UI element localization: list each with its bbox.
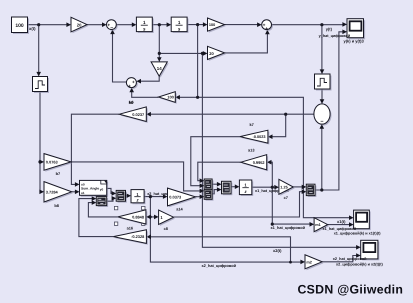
svg-text:0.0763: 0.0763 <box>46 160 59 165</box>
wire: y_hat output of M block to scope-y input2 <box>315 32 345 190</box>
wire: sum2 output y(t) to scope <box>272 24 345 26</box>
wire: x2 branch down to triangle14 and right to gain20b <box>159 25 205 60</box>
scope y(k) and y(t) <box>349 20 366 39</box>
svg-text:x1(t): x1(t) <box>337 219 346 224</box>
gain c7 <box>280 181 294 196</box>
svg-text:0.8848: 0.8848 <box>132 214 145 219</box>
svg-text:CSDN @Giiwedin: CSDN @Giiwedin <box>298 283 404 297</box>
gain m1 <box>316 219 330 233</box>
wire: ellipse output left to k8 <box>149 113 314 115</box>
wire: A2 to DZ2 <box>126 195 129 197</box>
svg-text:100: 100 <box>15 23 24 29</box>
gain 0.8848 (left-pointing, selected) <box>119 211 147 225</box>
wire: x2_hat branch down splits to 0.8848 and c8 then down to m2 <box>149 197 303 263</box>
wire: branch down to k7 <box>271 114 286 137</box>
small block C <box>223 183 233 196</box>
wire: triangle14 output to k6 sum <box>139 76 159 81</box>
small dark block M (y_hat mux) <box>308 186 317 197</box>
small dark block AUP <box>206 180 214 190</box>
wire: x1_hat down to m1 <box>272 187 311 224</box>
subsystem Sum_Angle <box>81 182 108 197</box>
svg-text:x2(t): x2(t) <box>273 248 282 253</box>
svg-text:m2: m2 <box>306 260 312 264</box>
svg-text:x1_hat_цифровой: x1_hat_цифровой <box>271 225 306 230</box>
constant block 100 <box>13 18 29 34</box>
wire: c7 output to M block input1 <box>293 186 304 188</box>
svg-text:s: s <box>178 27 181 32</box>
gain b7 <box>45 155 72 172</box>
wire and block labels <box>202 26 384 267</box>
wire: y_hat branch up to ellipse bottom (minus) <box>321 127 323 190</box>
gain 20 (input) <box>72 19 88 34</box>
svg-text:1: 1 <box>178 20 181 25</box>
svg-text:u1: u1 <box>81 191 85 195</box>
svg-text:-0.2328: -0.2328 <box>131 234 145 239</box>
wire: k7 output to block cluster <box>191 137 240 186</box>
discrete block DZ1 1/z <box>241 181 253 196</box>
wire: x1 branch down <box>197 25 199 98</box>
scope x2 <box>362 242 379 261</box>
wire: Sum_Angle y0 to A2 <box>107 188 114 193</box>
small dark block A2 <box>118 192 127 203</box>
svg-text:100: 100 <box>209 23 215 27</box>
svg-text:x1_hat_цифровой: x1_hat_цифровой <box>323 227 357 231</box>
svg-text:y(t): y(t) <box>326 26 333 31</box>
zero-order hold ZOH2 <box>316 76 332 91</box>
discrete block DZ2 1/z <box>132 191 145 204</box>
small dark block BUP <box>206 191 214 201</box>
wire: AUP out to C <box>212 183 219 185</box>
wire: constant to gain b5 <box>28 24 69 26</box>
wire: x2(t) long line down to scope2 <box>202 53 358 247</box>
wire: gain100L output to k6 bottom <box>132 90 159 97</box>
svg-text:Sum_Angle: Sum_Angle <box>81 186 99 190</box>
wire: 0.8848 output to A1 input2 <box>88 203 118 217</box>
svg-text:k7: k7 <box>250 122 254 127</box>
svg-text:0.0237: 0.0237 <box>132 112 144 117</box>
svg-text:a16: a16 <box>127 226 134 231</box>
wire: x1_hat up to a13 input <box>269 162 272 187</box>
ellipse sum (y - y_hat) <box>315 105 331 125</box>
svg-text:0.9952: 0.9952 <box>253 160 266 165</box>
svg-text:s: s <box>143 27 146 32</box>
wire: DZ2 out x2_hat to a14 <box>144 196 165 198</box>
scope x1 <box>355 212 371 231</box>
wire: gain20b up to sum2 bottom <box>225 32 268 53</box>
triangle gain 14 (down) <box>153 63 169 77</box>
svg-text:20: 20 <box>77 22 82 27</box>
k6 sum circle <box>128 79 138 89</box>
svg-text:m1: m1 <box>315 223 321 227</box>
wire: c8 output up to M block input2 <box>174 192 304 217</box>
svg-text:y0: y0 <box>100 187 104 191</box>
wire: x(t) branch down to ZOH1 <box>38 25 40 74</box>
svg-text:3.7284: 3.7284 <box>46 190 59 195</box>
wire: A1 out to A2 <box>107 198 114 201</box>
svg-text:c7: c7 <box>284 195 288 200</box>
sum1 circle <box>108 21 118 31</box>
wire: integrator2 to gain100b <box>188 24 205 26</box>
sum2 circle <box>263 21 273 31</box>
wire: x1 line left to gain100L and right-down to scope1 <box>178 97 351 217</box>
svg-text:-0.0023: -0.0023 <box>253 135 266 139</box>
gain 100 (left-pointing) <box>160 93 177 104</box>
svg-text:x2_hat_цифровой: x2_hat_цифровой <box>333 257 367 261</box>
gain 100 (upper right-pointing) <box>209 19 226 32</box>
svg-text:1.25: 1.25 <box>280 186 287 190</box>
svg-text:x1_цифровой(k) и x1(t)(t): x1_цифровой(k) и x1(t)(t) <box>334 231 382 235</box>
svg-text:−: − <box>110 25 113 31</box>
svg-text:100: 100 <box>167 95 174 100</box>
wire: gain100b to sum2 <box>225 24 259 26</box>
svg-text:x2_цифровой(k) и x2(t)(t): x2_цифровой(k) и x2(t)(t) <box>336 262 384 266</box>
integrator 2 <box>173 19 189 34</box>
svg-text:b7: b7 <box>56 171 61 176</box>
svg-text:a13: a13 <box>248 148 255 153</box>
svg-text:+: + <box>128 84 131 89</box>
wire: a14 output to BUP <box>196 196 202 198</box>
gain k8 <box>121 108 148 123</box>
gain c8 value 1 <box>160 211 175 226</box>
zero-order hold ZOH1 <box>34 78 49 93</box>
gain 20 (lower right-pointing) <box>209 48 226 61</box>
svg-text:20: 20 <box>209 51 214 56</box>
svg-text:+: + <box>265 27 268 32</box>
wire: gain20a to sum1 <box>87 24 104 26</box>
wire: integrator1 to integrator2 <box>152 24 169 26</box>
svg-text:+: + <box>132 80 135 85</box>
selection handles for gain 0.8848 <box>114 206 145 225</box>
svg-text:0.0373: 0.0373 <box>169 194 182 199</box>
gain -0.2328 (left-pointing) <box>115 231 148 245</box>
wire: m2 output to scope2 input2 <box>322 256 358 262</box>
svg-text:14: 14 <box>157 66 162 71</box>
wire: k6 output up to sum1 bottom <box>113 32 127 82</box>
gain k7 <box>241 132 269 145</box>
svg-text:y(k) и y(t)3: y(k) и y(t)3 <box>344 39 365 44</box>
svg-text:1: 1 <box>143 20 146 25</box>
svg-text:−: − <box>320 119 323 125</box>
gain a13 <box>242 156 268 171</box>
small dark block A1 (below Sum_Angle) <box>98 198 108 207</box>
arrowheads <box>36 22 360 264</box>
wire: BUP out to C <box>212 190 219 194</box>
wire: -0.2328 output to A1 input1 <box>79 199 113 237</box>
wire: b8 to Sum_Angle u1 <box>72 191 77 193</box>
svg-text:y_hat_цифровой: y_hat_цифровой <box>319 34 351 38</box>
wire: sum1 to integrator1 <box>116 24 134 26</box>
svg-text:x(t): x(t) <box>29 26 36 31</box>
wire: C out to DZ1 <box>231 186 237 188</box>
wire: b7 output to block cluster <box>71 162 202 191</box>
wire: m1 output to scope1 input2 <box>328 224 351 226</box>
svg-text:a14: a14 <box>176 206 183 211</box>
wire: ZOH2 to ellipse sum <box>321 89 323 102</box>
gain m2 <box>306 256 323 270</box>
wire: k8 output to Sum_Angle u0 <box>71 114 119 184</box>
gain b8 <box>45 183 73 203</box>
wire: branch up to -0.2328 input <box>149 237 291 262</box>
wire: a13 output to block cluster <box>198 162 241 181</box>
integrator 1 <box>138 19 154 34</box>
svg-text:x2_hat_цифровой: x2_hat_цифровой <box>202 263 237 268</box>
gain a14 <box>169 190 197 208</box>
wire: DZ1 out x1_hat to c7 <box>252 186 277 188</box>
wire: y(t) branch down to ZOH2 <box>321 25 323 72</box>
wire: ZOH1 down to b7 b8 <box>40 92 42 192</box>
